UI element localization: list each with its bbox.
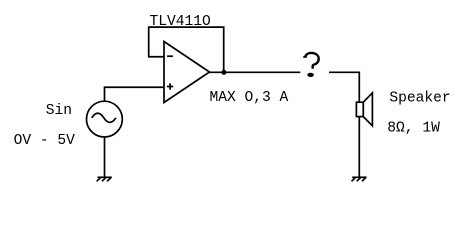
svg-text:TLV411O: TLV411O — [150, 14, 212, 30]
source V1 sine generator circle — [87, 101, 123, 137]
speaker LS1 symbol — [356, 93, 372, 126]
wire speaker to ground — [358, 117, 360, 177]
op-amp U1 triangle — [164, 42, 210, 103]
wire non-inverting input from source to op-amp — [105, 87, 165, 101]
svg-text:Speaker: Speaker — [389, 90, 450, 106]
svg-text:OV - 5V: OV - 5V — [14, 133, 76, 149]
op-amp plus input symbol — [167, 83, 173, 89]
svg-text:MAX O,3 A: MAX O,3 A — [210, 90, 289, 106]
sine wave symbol inside source — [92, 113, 116, 122]
node output junction dot — [221, 70, 226, 75]
ground under speaker — [352, 177, 367, 181]
wire from gap to speaker — [329, 72, 359, 102]
op-amp minus input symbol — [167, 55, 173, 57]
svg-text:Sin: Sin — [46, 103, 72, 119]
svg-text:8Ω, 1W: 8Ω, 1W — [387, 121, 440, 137]
ground under source — [97, 177, 112, 181]
wire output from op-amp apex to gap — [210, 71, 301, 73]
wire source to ground — [104, 137, 106, 177]
label question mark unknown current — [303, 53, 319, 77]
wire feedback loop from output node to inverting input — [149, 27, 224, 72]
